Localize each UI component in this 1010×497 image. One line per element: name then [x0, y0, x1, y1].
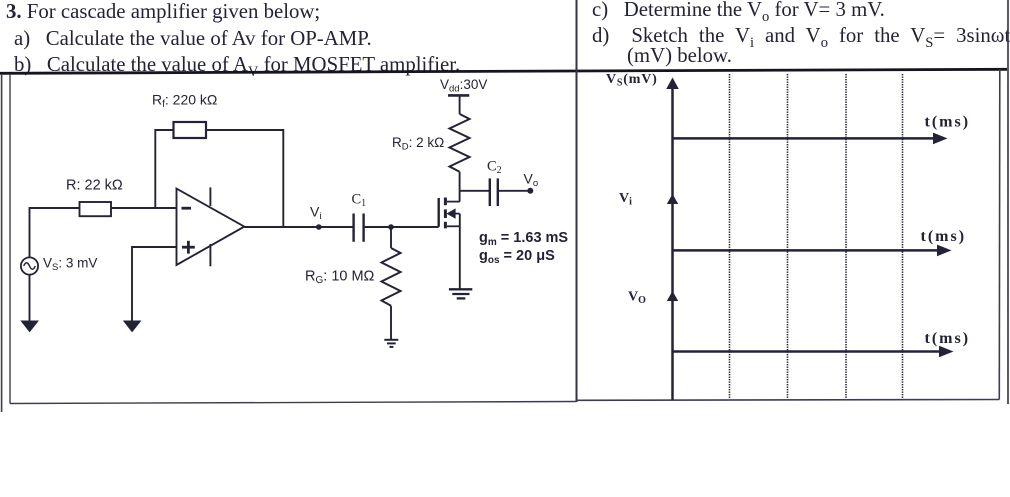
label RD: 2 kOhm	[392, 135, 444, 153]
wire from source top to main wire	[30, 208, 80, 257]
arrow axis Vo	[667, 291, 678, 301]
wire MOSFET source to ground	[459, 214, 461, 289]
wire C2 to Vo	[498, 190, 531, 192]
svg-text:RG: 10 MΩ: RG: 10 MΩ	[305, 269, 375, 287]
ground (RG)	[384, 340, 398, 347]
svg-text:Vo: Vo	[524, 171, 539, 190]
wire drain tap to C2	[460, 190, 490, 192]
svg-text:C2: C2	[487, 159, 502, 177]
resistor R	[80, 202, 112, 216]
wire RG to ground	[390, 306, 392, 340]
ground (op-amp plus input)	[125, 322, 140, 331]
capacitor C2	[490, 178, 498, 206]
label Vo	[524, 171, 539, 190]
label Vo axis	[628, 290, 646, 307]
node Vi	[316, 224, 322, 230]
label Vi axis	[619, 191, 632, 208]
label Rf: 220 kOhm	[152, 92, 217, 111]
label R: 22 kOhm	[66, 178, 123, 194]
wire op-amp output to C1	[244, 226, 353, 228]
wire R to op-amp minus input	[111, 207, 177, 209]
ground (MOSFET source)	[449, 289, 472, 298]
node after C1	[388, 224, 394, 230]
label VS: 3 mV	[43, 256, 97, 274]
svg-text:VO: VO	[628, 290, 646, 307]
svg-text:t(ms): t(ms)	[925, 113, 971, 130]
wire Vdd to RD	[459, 95, 461, 114]
svg-text:RD: 2 kΩ: RD: 2 kΩ	[392, 135, 444, 153]
label t(ms) 3	[925, 330, 971, 347]
source VS	[21, 257, 38, 274]
svg-text:C1: C1	[352, 192, 367, 210]
axis t1	[673, 133, 948, 145]
svg-text:gos = 20 μS: gos = 20 μS	[479, 248, 555, 266]
svg-text:Rf: 220 kΩ: Rf: 220 kΩ	[152, 92, 217, 111]
capacitor C1	[354, 214, 364, 242]
wire C1 to MOSFET gate	[364, 226, 439, 228]
transistor Q1	[439, 198, 460, 229]
wire RD to drain	[459, 172, 461, 202]
svg-text:VS(mV): VS(mV)	[606, 72, 658, 89]
axis t2	[673, 245, 952, 257]
svg-text:VS: 3 mV: VS: 3 mV	[43, 256, 97, 274]
op-amp power pin bottom	[209, 244, 211, 266]
wire node to RG	[390, 227, 392, 248]
wire feedback left vertical	[155, 130, 173, 208]
label C2	[487, 159, 502, 177]
op-amp U1	[177, 189, 245, 265]
axis VS vertical	[671, 80, 674, 400]
ground (source VS)	[22, 322, 37, 331]
label C1	[352, 192, 367, 210]
label VS(mV)	[606, 72, 658, 89]
svg-text:Vi: Vi	[310, 204, 321, 223]
label t(ms) 1	[925, 113, 971, 130]
resistor Rf	[174, 122, 207, 138]
label Vdd:30V	[440, 77, 487, 95]
svg-text:Vi: Vi	[619, 191, 632, 208]
wire source bottom to ground	[29, 275, 31, 322]
node Vo	[527, 188, 533, 194]
Vdd supply bar	[448, 94, 469, 97]
label RG: 10 MOhm	[305, 269, 375, 287]
svg-text:gm = 1.63 mS: gm = 1.63 mS	[479, 230, 568, 248]
resistor RG	[382, 248, 401, 306]
wire feedback top and right vertical to output	[206, 130, 283, 227]
svg-text:t(ms): t(ms)	[921, 228, 967, 245]
op-amp power pin top	[209, 187, 211, 206]
axis t3	[673, 346, 954, 358]
resistor RD	[450, 114, 470, 172]
wire plus input to ground	[132, 247, 177, 322]
svg-text:t(ms): t(ms)	[925, 330, 971, 347]
arrow axis top	[666, 78, 679, 90]
label Vi	[310, 204, 321, 223]
label t(ms) 2	[921, 228, 967, 245]
label gm gos	[479, 230, 568, 266]
arrow axis Vi	[667, 194, 678, 204]
svg-text:R: 22 kΩ: R: 22 kΩ	[66, 178, 123, 194]
svg-text:Vdd:30V: Vdd:30V	[440, 77, 487, 95]
